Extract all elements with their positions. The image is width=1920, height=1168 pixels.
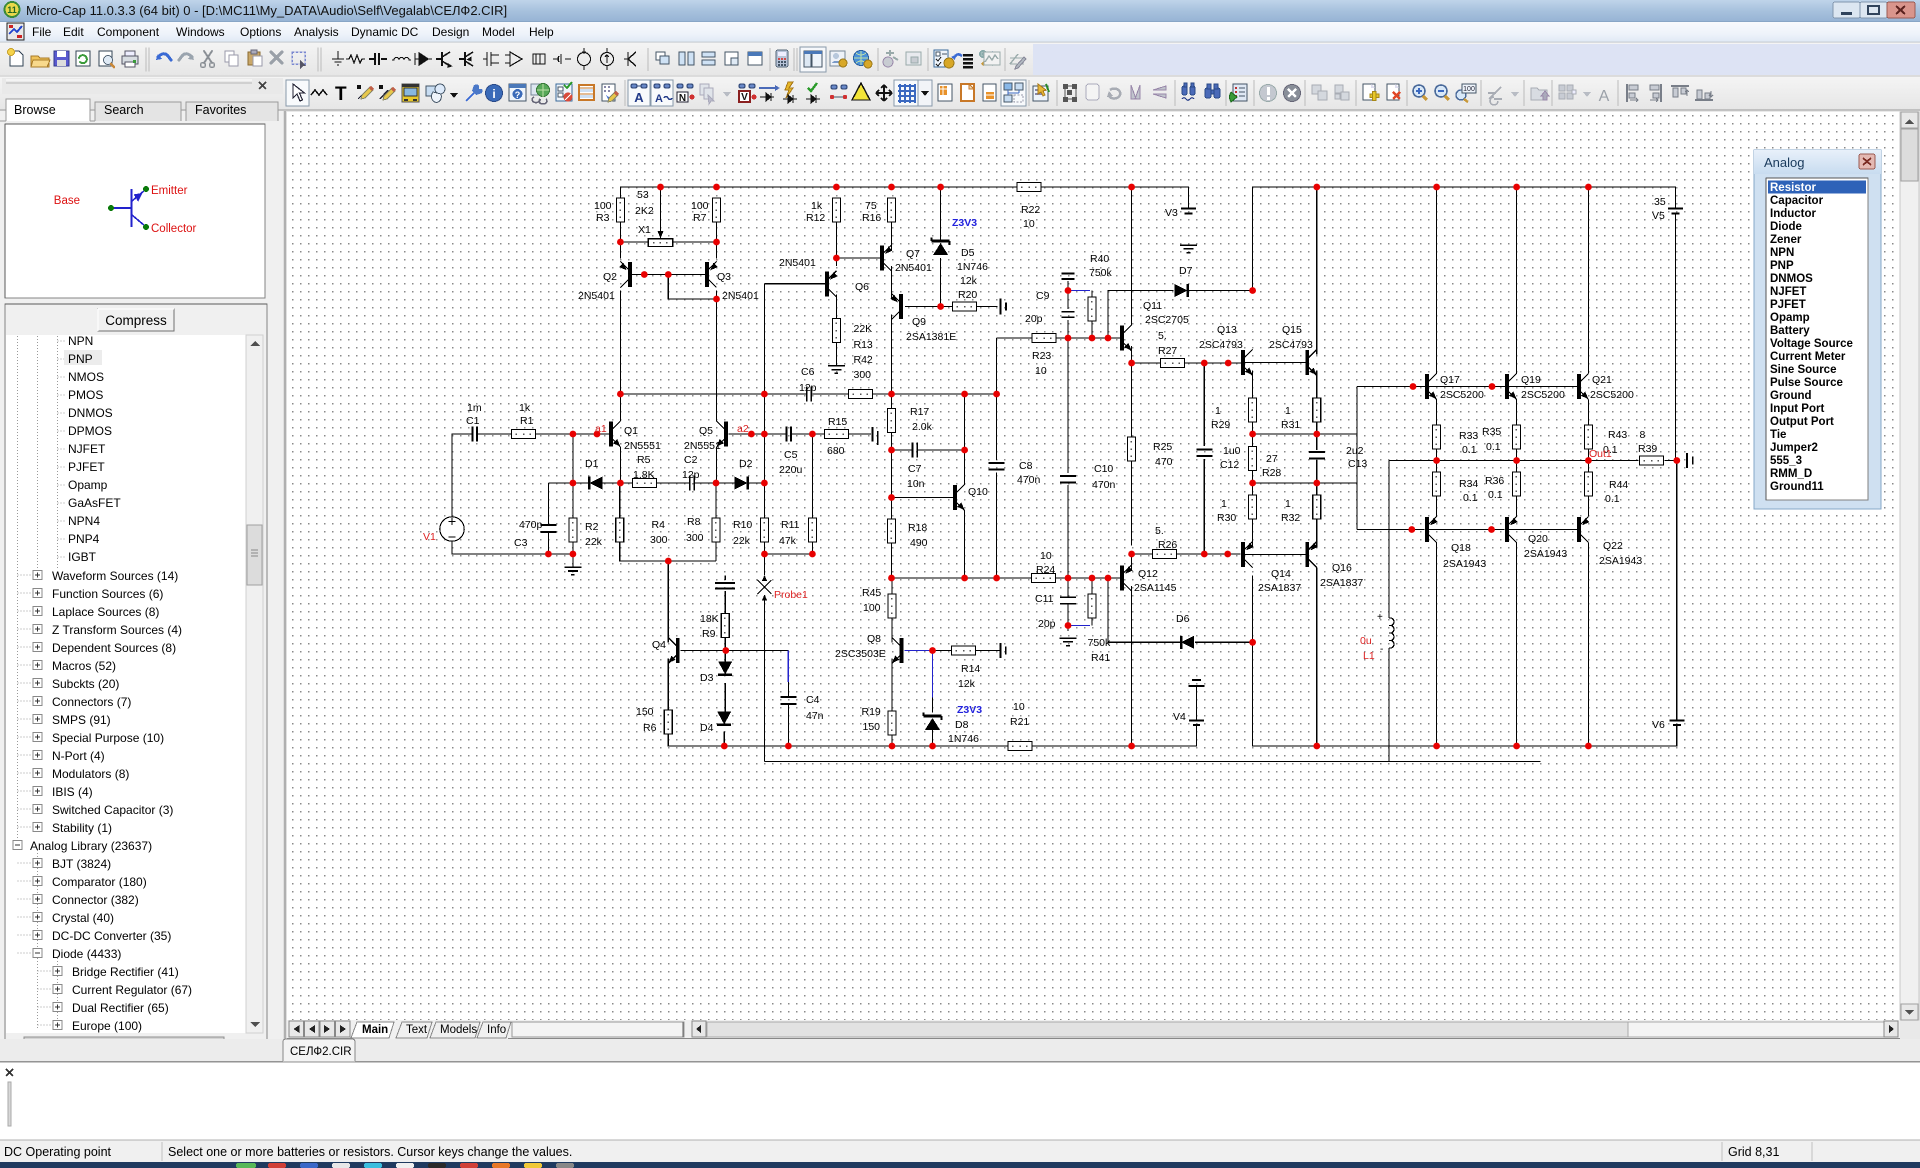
junction node (620.4,483) — [617, 480, 624, 487]
menu bar — [0, 22, 1920, 42]
svg-text:i: i — [492, 87, 495, 101]
isource — [601, 53, 614, 66]
wire Q17 collector — [1436, 187, 1438, 374]
transistor Q16 — [1307, 542, 1318, 568]
junction node (1588.4,746) — [1585, 743, 1592, 750]
svg-text:Q20: Q20 — [1528, 533, 1548, 545]
bottom tab strip — [287, 1020, 1900, 1039]
svg-text:10n: 10n — [907, 478, 925, 490]
svg-text:R34: R34 — [1459, 478, 1478, 490]
flip h — [1131, 85, 1140, 99]
pressed panel btn — [800, 47, 826, 72]
svg-text:SMPS (91): SMPS (91) — [52, 713, 111, 727]
svg-text:NPN4: NPN4 — [68, 514, 100, 528]
svg-text:R20: R20 — [958, 289, 977, 301]
junction node (891.5,394) — [888, 391, 895, 398]
resistor R1 — [512, 430, 536, 439]
capacitor C4 — [780, 696, 796, 698]
component icons (black schematic glyphs) — [332, 48, 636, 70]
wire Q8 base row R14 — [933, 650, 952, 652]
yellow bus — [402, 84, 419, 102]
junction node (1516.6,746) — [1513, 743, 1520, 750]
svg-text:750k: 750k — [1089, 267, 1113, 279]
svg-text:300: 300 — [854, 369, 872, 381]
resistor R14 — [952, 646, 976, 655]
resistor R9 — [721, 614, 729, 638]
svg-text:Q22: Q22 — [1603, 540, 1623, 552]
svg-text:100: 100 — [1463, 86, 1475, 93]
wire Q8 base blue — [905, 650, 933, 652]
resistor R33 — [1433, 425, 1441, 449]
grid squares menu — [1559, 85, 1576, 99]
wire R16 to Q7 — [891, 222, 893, 250]
wire upper bases y386 — [1357, 386, 1426, 388]
svg-text:10: 10 — [1013, 701, 1025, 713]
wire cap stub above R9 — [724, 576, 726, 581]
diode D7 — [1175, 284, 1188, 297]
svg-text:Main: Main — [362, 1024, 388, 1036]
junction node (620.4,242) — [617, 239, 624, 246]
diode D2 — [735, 477, 748, 490]
wire R35 R36 column — [1516, 400, 1518, 426]
wire R29 R31 bottoms y434 — [1252, 422, 1254, 447]
orange table — [579, 85, 594, 100]
svg-text:R6: R6 — [643, 722, 657, 734]
svg-text:Q17: Q17 — [1440, 374, 1460, 386]
svg-text:Q19: Q19 — [1521, 374, 1541, 386]
svg-text:5.: 5. — [1158, 330, 1167, 342]
svg-text:DPMOS: DPMOS — [68, 424, 112, 438]
zener D8 (1N746) — [924, 715, 942, 718]
junction node (1316.8,746) — [1313, 743, 1320, 750]
svg-text:2SC5200: 2SC5200 — [1440, 389, 1484, 401]
svg-text:D5: D5 — [961, 247, 975, 259]
wire Q4 base row — [681, 650, 725, 652]
svg-text:20p: 20p — [1025, 313, 1043, 325]
junction node (1588.4,460.5) — [1585, 457, 1592, 464]
svg-text:Z3V3: Z3V3 — [957, 704, 982, 716]
canvas vertical scrollbar — [1900, 112, 1919, 1020]
svg-text:1k: 1k — [519, 402, 531, 414]
wire Q1 emitter lead — [619, 447, 621, 483]
resistor R22 — [1017, 183, 1041, 192]
diode — [415, 53, 432, 65]
npn — [436, 52, 450, 66]
svg-text:Q9: Q9 — [912, 316, 926, 328]
resistor R26 — [1153, 550, 1177, 559]
cut — [204, 51, 212, 63]
transistor Q11 — [1122, 325, 1132, 351]
zoom out — [1435, 85, 1447, 97]
capacitor C1 — [471, 427, 473, 442]
arrow diode — [759, 87, 775, 89]
svg-text:V6: V6 — [1652, 719, 1665, 731]
sep — [317, 48, 319, 71]
wire gnd stub R2 — [572, 554, 574, 567]
wire x1108 riser — [1108, 291, 1132, 339]
globe+gear — [854, 51, 869, 66]
capacitor C2 — [689, 476, 691, 491]
svg-text:R12: R12 — [806, 212, 825, 224]
resistor R7 — [713, 198, 721, 222]
svg-text:PJFET: PJFET — [68, 460, 105, 474]
save — [54, 51, 69, 66]
svg-text:D2: D2 — [739, 458, 753, 470]
svg-text:470n: 470n — [1092, 479, 1116, 491]
svg-text:R17: R17 — [910, 406, 929, 418]
svg-text:22k: 22k — [585, 536, 603, 548]
svg-text:L1: L1 — [1363, 650, 1375, 662]
svg-text:DC-DC Converter (35): DC-DC Converter (35) — [52, 929, 171, 943]
zoom 100 — [1456, 90, 1466, 100]
wire Q10 emitter — [964, 511, 966, 579]
transistor Q5 — [717, 421, 727, 447]
wire Q2 collector column — [619, 291, 621, 395]
svg-text:R43: R43 — [1608, 429, 1627, 441]
svg-text:PJFET: PJFET — [1770, 299, 1806, 311]
svg-text:Out1: Out1 — [1589, 448, 1612, 460]
svg-text:Inductor: Inductor — [1770, 208, 1817, 220]
svg-text:470: 470 — [1155, 456, 1173, 468]
tree dotted guides — [18, 336, 58, 1030]
svg-text:D6: D6 — [1176, 613, 1190, 625]
wire R23 row — [997, 337, 1032, 339]
resistor R21 — [1008, 742, 1032, 751]
transistor Q14 — [1243, 542, 1254, 568]
wire R33 R34 column — [1436, 400, 1438, 426]
svg-text:2N5401: 2N5401 — [895, 262, 932, 274]
ground below R2 — [564, 567, 581, 574]
open folder — [31, 56, 49, 67]
tie bars R15 — [871, 427, 873, 442]
svg-text:2N5401: 2N5401 — [578, 290, 615, 302]
wire Q12 collector lead — [1131, 554, 1133, 570]
svg-text:Windows: Windows — [176, 25, 225, 39]
svg-text:C13: C13 — [1348, 458, 1367, 470]
wire Q12 base row y578 — [892, 577, 1032, 579]
wire X1 wiper — [660, 187, 662, 231]
junction node (725.8,650.5) — [722, 647, 729, 654]
svg-text:Component: Component — [97, 25, 160, 39]
svg-text:1: 1 — [1285, 405, 1291, 417]
svg-text:C6: C6 — [801, 366, 815, 378]
junction node (1588.4,187) — [1585, 184, 1592, 191]
wire C10 column — [1067, 338, 1069, 473]
svg-text:R31: R31 — [1281, 419, 1300, 431]
menu icon — [7, 23, 24, 40]
svg-text:Q1: Q1 — [624, 425, 638, 437]
tree horizontal scrollbar — [6, 1036, 263, 1053]
svg-text:C4: C4 — [806, 694, 820, 706]
ground below V3 — [1180, 245, 1197, 252]
junction node (620.4,394) — [617, 391, 624, 398]
sep — [647, 48, 649, 71]
wire Q14 emitter lead — [1252, 519, 1254, 547]
svg-text:+: + — [1377, 612, 1383, 623]
wire R26 row y554 — [1132, 553, 1153, 555]
junction node (1092,338) — [1089, 335, 1096, 342]
svg-text:20p: 20p — [1038, 618, 1056, 630]
gray pages — [700, 84, 714, 104]
rotate gray — [1109, 89, 1120, 99]
svg-text:Dynamic DC: Dynamic DC — [351, 25, 419, 39]
wire C9 blue link — [1068, 290, 1090, 292]
svg-text:27: 27 — [1266, 453, 1278, 465]
resistor R11 — [808, 518, 816, 542]
tree plus boxes — [13, 571, 62, 1030]
grid btn pressed — [894, 80, 918, 106]
transistor Q22 — [1579, 517, 1590, 543]
junction node (1092,578) — [1089, 575, 1096, 582]
wire Q19 collector — [1516, 187, 1518, 374]
svg-text:R44: R44 — [1609, 479, 1628, 491]
svg-text:C9: C9 — [1036, 290, 1050, 302]
svg-text:Analog Library (23637): Analog Library (23637) — [30, 839, 152, 853]
wire C4 bottom — [787, 704, 789, 746]
capacitor C11 — [1060, 596, 1076, 598]
junction node (964.6,394) — [961, 391, 968, 398]
wire R4 column — [619, 483, 621, 518]
svg-text:2N5551: 2N5551 — [684, 440, 721, 452]
svg-text:1m: 1m — [467, 402, 482, 414]
svg-text:12k: 12k — [960, 275, 978, 287]
svg-text:47k: 47k — [779, 535, 797, 547]
transistor Q9 — [890, 294, 901, 320]
svg-text:R4: R4 — [652, 519, 666, 531]
svg-text:1u0: 1u0 — [1223, 445, 1241, 457]
capacitor C12 — [1196, 448, 1212, 450]
resistor R28 — [1249, 447, 1257, 471]
svg-text:0.1: 0.1 — [1605, 493, 1620, 505]
junction node (788.4,746) — [785, 743, 792, 750]
svg-text:PNP: PNP — [68, 352, 93, 366]
undo — [158, 54, 171, 60]
preview transistor symbol (PNP) — [113, 189, 145, 227]
svg-text:V4: V4 — [1173, 711, 1186, 723]
wire Q14-Q16 base row — [1245, 554, 1306, 556]
svg-text:Model: Model — [482, 25, 515, 39]
wire R2 column — [572, 434, 574, 518]
svg-text:R30: R30 — [1217, 512, 1236, 524]
find binoc — [1182, 83, 1195, 95]
wire V1 bottom — [452, 541, 548, 554]
wire R40 leads — [1091, 291, 1093, 298]
junction node (892,746) — [889, 743, 896, 750]
Compress button — [98, 309, 174, 331]
redo — [179, 54, 192, 60]
K — [624, 52, 636, 66]
svg-text:V3: V3 — [1165, 207, 1178, 219]
svg-text:C2: C2 — [684, 454, 698, 466]
resistor — [346, 55, 365, 63]
flip v — [1153, 86, 1166, 98]
svg-text:2SA1837: 2SA1837 — [1320, 577, 1363, 589]
svg-text:470n: 470n — [1017, 474, 1041, 486]
svg-text:Design: Design — [432, 25, 469, 39]
svg-text:2SC5200: 2SC5200 — [1590, 389, 1634, 401]
nmos — [483, 52, 499, 66]
gray run, gray window — [883, 57, 893, 67]
junction node (572.9,434) — [570, 431, 577, 438]
junction node (1492,386.5) — [1489, 383, 1496, 390]
select handles — [1063, 84, 1077, 102]
wire Q21 collector — [1587, 187, 1589, 374]
resistor R13 — [832, 319, 840, 343]
svg-text:2K2: 2K2 — [635, 205, 654, 217]
wire D7 row — [1132, 290, 1174, 292]
svg-text:Text: Text — [406, 1024, 428, 1036]
svg-text:Dependent Sources (8): Dependent Sources (8) — [52, 641, 176, 655]
print preview — [99, 51, 112, 66]
wire C11 column — [1067, 578, 1069, 597]
resistor R10 — [760, 518, 768, 542]
svg-text:Q8: Q8 — [867, 633, 881, 645]
svg-text:Voltage Source: Voltage Source — [1770, 338, 1853, 350]
transistor Q4 — [668, 638, 678, 664]
svg-text:V5: V5 — [1652, 210, 1665, 222]
svg-text:Analysis: Analysis — [294, 25, 339, 39]
glasses V — [739, 84, 755, 88]
panel header grip — [2, 78, 283, 94]
junction node (764.4,483) — [761, 480, 768, 487]
svg-text:1: 1 — [1215, 405, 1221, 417]
transistor Q6 — [827, 271, 838, 297]
svg-text:V1: V1 — [423, 531, 436, 543]
wire probe column — [764, 554, 766, 575]
svg-text:A: A — [655, 93, 663, 105]
browser section — [5, 304, 267, 1056]
folder up gray — [1531, 88, 1547, 100]
wire D6 to Q14 column — [1195, 641, 1253, 643]
junction node (1516.6,187) — [1513, 184, 1520, 191]
resistor R32 — [1313, 495, 1321, 519]
resistor R36 — [1513, 472, 1521, 496]
junction node (812.4,434) — [809, 431, 816, 438]
svg-text:Micro-Cap 11.0.3.3 (64 bit) 0: Micro-Cap 11.0.3.3 (64 bit) 0 - [D:\MC11… — [26, 3, 507, 18]
junction node (597,434) — [594, 431, 601, 438]
battery V5 — [1668, 208, 1683, 210]
junction node (1131.6,363) — [1128, 360, 1135, 367]
junction node (1204.3,363) — [1201, 360, 1208, 367]
wire x1108 drop to D6 — [1108, 578, 1180, 642]
svg-text:47n: 47n — [806, 710, 824, 722]
resistor R45 — [888, 594, 896, 618]
glasses A btn — [628, 80, 650, 106]
svg-text:2SC3503E: 2SC3503E — [835, 648, 886, 660]
tie bars output — [1686, 453, 1688, 468]
wire Q16 emitter lead — [1316, 519, 1318, 547]
junction node (891.5,497.5) — [888, 494, 895, 501]
svg-text:Current Meter: Current Meter — [1770, 351, 1846, 363]
junction node (932.5,746) — [929, 743, 936, 750]
battery V6 — [1669, 720, 1684, 722]
svg-text:Comparator (180): Comparator (180) — [52, 875, 147, 889]
resistor R8 — [712, 518, 720, 542]
svg-text:18K: 18K — [700, 613, 719, 625]
svg-text:Ground11: Ground11 — [1770, 481, 1824, 493]
doc plus — [1363, 84, 1375, 100]
svg-text:Current Regulator (67): Current Regulator (67) — [72, 983, 192, 997]
svg-text:T: T — [335, 84, 347, 105]
wire Q4 collector column — [667, 561, 669, 643]
junction node (812.4,554) — [809, 551, 816, 558]
svg-text:R11: R11 — [781, 519, 800, 531]
svg-text:R9: R9 — [702, 628, 716, 640]
svg-text:Q4: Q4 — [652, 639, 666, 651]
transistor Q10 — [955, 485, 965, 511]
svg-text:IGBT: IGBT — [68, 550, 97, 564]
capacitor C9 — [1062, 273, 1075, 275]
battery V4 — [1189, 685, 1205, 687]
svg-text:Q10: Q10 — [968, 486, 988, 498]
svg-text:Opamp: Opamp — [68, 478, 108, 492]
svg-text:680: 680 — [827, 445, 845, 457]
svg-text:A: A — [634, 90, 644, 105]
svg-text:1: 1 — [1285, 498, 1291, 510]
junction node (1516.6,460.5) — [1513, 457, 1520, 464]
junction node (716.5,187) — [713, 184, 720, 191]
transistor Q18 — [1427, 517, 1438, 543]
svg-text:D7: D7 — [1179, 265, 1193, 277]
svg-text:R24: R24 — [1036, 564, 1055, 576]
junction node (1204.3,554) — [1201, 551, 1208, 558]
junction node (764.4,394) — [761, 391, 768, 398]
svg-text:R28: R28 — [1262, 467, 1281, 479]
svg-text:R25: R25 — [1153, 441, 1172, 453]
svg-text:R35: R35 — [1482, 426, 1501, 438]
tie bars R14 — [999, 643, 1001, 658]
svg-text:NPN: NPN — [1770, 247, 1794, 259]
svg-text:Jumper2: Jumper2 — [1770, 442, 1818, 454]
svg-text:1.8K: 1.8K — [633, 469, 655, 481]
ground below C11 — [1060, 638, 1077, 645]
svg-text:2SA1943: 2SA1943 — [1599, 555, 1642, 567]
wire bottom row y554 — [548, 553, 573, 555]
svg-text:Opamp: Opamp — [1770, 312, 1810, 324]
svg-text:150: 150 — [863, 721, 881, 733]
junction node (1131.6,554) — [1128, 551, 1135, 558]
svg-text:Laplace Sources (8): Laplace Sources (8) — [52, 605, 159, 619]
junction node (932.5,650.5) — [929, 647, 936, 654]
probe Probe1 — [757, 580, 771, 594]
revert — [76, 51, 90, 66]
svg-text:1N746: 1N746 — [948, 733, 979, 745]
svg-text:Help: Help — [529, 25, 554, 39]
tools — [982, 53, 994, 65]
svg-text:R45: R45 — [862, 587, 881, 599]
wire input row — [452, 434, 472, 517]
wire Q5 emitter lead — [716, 447, 718, 483]
svg-text:Subckts (20): Subckts (20) — [52, 677, 119, 691]
svg-text:12k: 12k — [958, 678, 976, 690]
svg-text:DNMOS: DNMOS — [68, 406, 113, 420]
window buttons — [1833, 2, 1915, 18]
svg-text:Q21: Q21 — [1592, 374, 1612, 386]
shapes — [426, 86, 436, 96]
svg-text:300: 300 — [650, 534, 668, 546]
svg-text:a2: a2 — [737, 423, 749, 435]
junction node (572.9,554) — [570, 551, 577, 558]
wire Q6 collector to R13 — [835, 295, 837, 319]
wire output rail y460 — [1389, 460, 1639, 462]
svg-text:Connectors (7): Connectors (7) — [52, 695, 131, 709]
check diode — [808, 83, 817, 91]
wire R12 lead — [835, 222, 837, 266]
transistor Q20 — [1507, 517, 1518, 543]
wire C8 column — [996, 394, 998, 460]
transistor Q7 — [882, 245, 893, 271]
svg-text:R3: R3 — [596, 212, 610, 224]
